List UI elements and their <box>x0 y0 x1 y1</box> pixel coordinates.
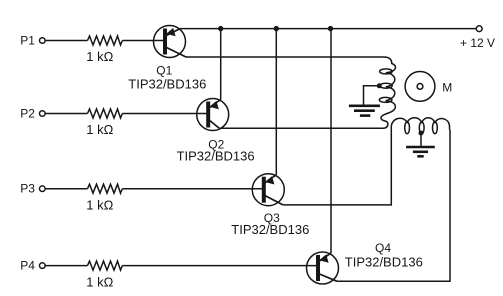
svg-text:1 kΩ: 1 kΩ <box>86 122 113 137</box>
svg-text:TIP32/BD136: TIP32/BD136 <box>128 77 206 92</box>
svg-text:+ 12 V: + 12 V <box>460 36 495 50</box>
svg-text:P3: P3 <box>20 182 35 196</box>
svg-text:P4: P4 <box>20 259 35 273</box>
svg-text:TIP32/BD136: TIP32/BD136 <box>231 222 309 237</box>
svg-text:1 kΩ: 1 kΩ <box>86 197 113 212</box>
svg-text:P1: P1 <box>20 34 35 48</box>
svg-text:1 kΩ: 1 kΩ <box>86 49 113 64</box>
svg-text:M: M <box>442 80 452 94</box>
svg-text:P2: P2 <box>20 107 35 121</box>
svg-text:Q4: Q4 <box>375 241 391 255</box>
svg-text:1 kΩ: 1 kΩ <box>86 274 113 289</box>
svg-text:TIP32/BD136: TIP32/BD136 <box>345 254 423 269</box>
svg-text:TIP32/BD136: TIP32/BD136 <box>177 149 255 164</box>
svg-text:Q1: Q1 <box>156 63 172 77</box>
